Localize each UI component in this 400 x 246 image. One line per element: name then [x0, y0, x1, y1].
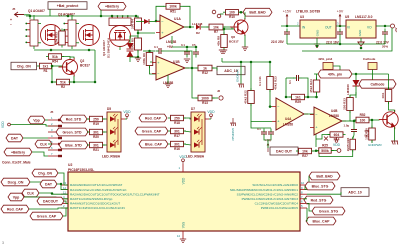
svg-text:1k1: 1k1 — [295, 95, 301, 99]
wire pin9 — [305, 186, 307, 190]
wire R6 top — [149, 51, 151, 53]
wire base divider — [52, 66, 56, 82]
wire node to R31 col — [356, 73, 389, 75]
no-connect X — [324, 137, 328, 141]
svg-text:SDL/SDA/PWM4/NCO1/C2IN1-/C1IN1: SDL/SDA/PWM4/NCO1/C2IN1-/C1IN1-/AN5/RC1 — [230, 188, 298, 192]
svg-text:PWM2/CLCIN0/C2IN3-/C1IN3-/AN7/: PWM2/CLCIN0/C2IN3-/C1IN3-/AN7/RC3 — [242, 197, 299, 201]
wire R29 right — [304, 96, 317, 98]
svg-text:+: + — [10, 18, 12, 22]
wire R25 right — [331, 150, 337, 152]
svg-text:0.1: 0.1 — [181, 43, 185, 47]
svg-text:1k: 1k — [203, 66, 207, 70]
resistor R25 — [316, 144, 334, 154]
wire feedback top — [286, 77, 294, 79]
test point J6 — [219, 96, 223, 100]
svg-text:U1B: U1B — [173, 60, 180, 64]
wire C2 down — [339, 38, 341, 45]
global label 49%_pin — [318, 70, 352, 78]
svg-text:49%_pin3: 49%_pin3 — [318, 57, 333, 61]
svg-text:DAT: DAT — [11, 136, 19, 140]
junction — [135, 15, 138, 18]
label Dscg_ON — [1, 178, 30, 186]
svg-text:Cathode: Cathode — [371, 82, 385, 86]
transistor Q8 BC817 — [379, 110, 398, 129]
svg-text:Q4 AO4407: Q4 AO4407 — [102, 40, 106, 56]
junction — [67, 15, 70, 18]
wire R4 to R5 — [137, 30, 139, 38]
svg-text:R54: R54 — [52, 59, 58, 63]
wire R24 top — [316, 74, 318, 80]
wire +Battery down — [100, 10, 102, 16]
wire R5 to gnd — [137, 50, 139, 57]
svg-text:−: − — [10, 23, 12, 27]
svg-text:Dscg_ON: Dscg_ON — [8, 180, 24, 184]
wire divider to op-amp + — [138, 32, 155, 34]
svg-text:Batt_BAD: Batt_BAD — [249, 11, 266, 15]
wire pin7 — [304, 199, 307, 200]
wire R31 to Q8 collector — [389, 102, 395, 110]
wire J7 down — [372, 70, 374, 81]
wire R23 to - input — [270, 90, 272, 107]
junction — [223, 28, 226, 31]
svg-text:R17: R17 — [174, 134, 180, 138]
label DAT U2 — [40, 180, 57, 188]
junction — [186, 46, 189, 49]
svg-text:45k3 R24: 45k3 R24 — [309, 79, 313, 93]
op-amp U4A LM358 — [272, 98, 308, 130]
svg-text:Vpp: Vpp — [13, 195, 20, 199]
connector J1 charger input arrow — [15, 12, 25, 17]
wire to R23 — [269, 62, 271, 76]
global label Blue_CAP right — [306, 217, 336, 225]
svg-text:Red_CAP: Red_CAP — [145, 116, 162, 120]
svg-text:10: 10 — [301, 181, 305, 185]
svg-text:Blue_STD: Blue_STD — [65, 143, 82, 147]
resistor R12 — [196, 65, 215, 75]
wire U1B + in — [150, 61, 152, 63]
svg-text:Q6: Q6 — [231, 35, 235, 39]
wire Chg_ON to pin13 — [58, 173, 68, 185]
svg-text:CLK: CLK — [40, 142, 48, 146]
svg-text:Vpp: Vpp — [33, 118, 40, 122]
resistor R18 — [168, 115, 186, 125]
svg-text:VDD: VDD — [1, 121, 5, 128]
wire LM4040 to R33 — [350, 92, 356, 98]
svg-text:3: 3 — [2, 241, 4, 245]
wire collector node — [389, 88, 391, 90]
wire LM4040 down — [355, 86, 357, 98]
svg-text:Green_CAP: Green_CAP — [142, 129, 162, 133]
ground R8 — [221, 50, 227, 54]
svg-text:100k R5: 100k R5 — [130, 38, 134, 50]
wire collector — [394, 110, 396, 112]
capacitor C9 0.1 — [268, 129, 274, 138]
IC U2 PIC16F1503 — [68, 163, 300, 231]
capacitor C8 1.0u — [351, 126, 357, 135]
wire bottom rail — [34, 49, 95, 51]
svg-text:Red_CAP: Red_CAP — [7, 207, 24, 211]
junction — [250, 61, 253, 64]
svg-text:LM358: LM358 — [283, 123, 293, 127]
resistor R54 — [46, 54, 64, 64]
svg-text:GNDPwR: GNDPwR — [236, 69, 240, 82]
resistor R20 — [87, 129, 105, 139]
svg-text:301: 301 — [174, 129, 180, 133]
resistor R13 — [196, 95, 215, 105]
wire CLK pin5 — [48, 143, 52, 145]
wire pin6 — [307, 203, 312, 211]
capacitor C6 0.1 — [261, 129, 267, 138]
wire R10 to Batt_BAD — [239, 11, 249, 13]
wire out down to R13 — [192, 68, 197, 98]
connector J2 Conn_01x07_Male — [48, 116, 62, 157]
svg-text:20%: 20% — [382, 45, 388, 49]
resistor R52 — [354, 113, 372, 123]
svg-text:R16: R16 — [174, 147, 180, 151]
global label Green_CAP — [135, 127, 168, 135]
resistor R5 — [130, 36, 141, 53]
label +Battery J2 — [4, 148, 32, 156]
resistor R23 — [267, 74, 278, 92]
wire feedback left — [285, 78, 287, 97]
resistor R30 — [365, 126, 376, 143]
svg-text:+15V: +15V — [283, 10, 292, 14]
wire D1 bottom — [130, 56, 138, 58]
wire Vpp to pin1 — [45, 119, 48, 121]
label +Bat_protect — [48, 2, 87, 10]
junction — [137, 32, 140, 35]
svg-text:J5: J5 — [12, 7, 16, 11]
label Green_CAP U2 — [30, 212, 63, 220]
label Chg_ON — [11, 62, 37, 70]
junction — [315, 113, 318, 116]
svg-text:100k: 100k — [169, 5, 177, 9]
power VDD D7 — [207, 110, 215, 119]
junction — [316, 45, 319, 48]
svg-text:GNDPWR: GNDPWR — [368, 143, 382, 147]
small diode D3 — [144, 19, 149, 24]
capacitor C7 0.1 — [156, 48, 165, 54]
wire top rail +Battery — [26, 15, 136, 17]
svg-text:LM358: LM358 — [329, 114, 339, 118]
svg-text:LED_RGBA: LED_RGBA — [186, 155, 205, 159]
svg-text:SCK/SCL/CLC2/C2IN+/AN4/RC0: SCK/SCL/CLC2/C2IN+/AN4/RC0 — [252, 183, 298, 187]
global label Blue_CAP — [139, 140, 168, 148]
svg-text:45k3 R22: 45k3 R22 — [244, 90, 248, 104]
svg-text:Green_STD: Green_STD — [62, 130, 82, 134]
wire Green_CAP — [63, 208, 68, 216]
svg-text:100: 100 — [360, 118, 366, 122]
w — [125, 118, 127, 120]
svg-text:+Battery: +Battery — [105, 5, 119, 9]
svg-text:51k: 51k — [60, 80, 66, 84]
junction — [73, 81, 76, 84]
label ADC_10 mid — [217, 66, 245, 74]
label CLK U2 — [22, 189, 39, 197]
junction — [189, 26, 192, 29]
capacitor C3 22.0 10V — [382, 29, 388, 38]
svg-text:0.1 C11: 0.1 C11 — [258, 76, 262, 86]
power +9V caps — [265, 139, 272, 152]
label DACOUT — [270, 147, 298, 155]
label Chg_ON U2 — [32, 169, 58, 177]
wire U5 gnd — [360, 38, 362, 42]
junction — [240, 11, 243, 14]
svg-text:R2: R2 — [61, 85, 65, 89]
svg-text:+Battery: +Battery — [11, 150, 25, 154]
svg-text:CLK: CLK — [27, 191, 35, 195]
junction — [269, 61, 272, 64]
power VDD U2 — [179, 155, 187, 164]
wire node to LM4040 — [355, 74, 357, 80]
junction — [315, 96, 318, 99]
resistor R1 — [37, 63, 54, 73]
global label Green_STD — [56, 128, 88, 136]
svg-text:RA4/AN3/T1G/NCO1/SDO/CLKOUT: RA4/AN3/T1G/NCO1/SDO/CLKOUT — [70, 202, 120, 206]
junction — [286, 25, 289, 28]
capacitor C2 22.0 16V — [337, 29, 343, 38]
wire DACOUT pin3 — [64, 201, 68, 203]
svg-text:U4A: U4A — [285, 117, 292, 121]
svg-text:VDD: VDD — [333, 143, 341, 147]
wire down to R31 — [388, 74, 390, 89]
svg-text:0.1: 0.1 — [288, 80, 292, 84]
wire R14 left — [316, 135, 330, 140]
svg-text:12: 12 — [63, 186, 67, 190]
wire Dscg_ON — [30, 182, 45, 184]
wire R6 to inverting — [150, 66, 157, 75]
capacitor C5 0.1 — [193, 49, 199, 58]
resistor R29 — [289, 94, 307, 104]
resistor R14 — [328, 132, 346, 142]
resistor R26 — [346, 137, 356, 153]
op-amp U4B LM358 — [310, 107, 346, 135]
wire Q6 emitter — [244, 35, 246, 47]
svg-text:Blue_CAP: Blue_CAP — [313, 219, 331, 223]
wire Red_CAP pin2 — [29, 208, 68, 209]
power +15V — [283, 10, 292, 26]
wire C1 down — [286, 38, 288, 45]
transistor Q6 BC817 — [230, 18, 248, 36]
wire R12 to ADC label — [212, 68, 217, 71]
svg-text:VDD: VDD — [123, 110, 131, 114]
svg-text:301: 301 — [93, 130, 99, 134]
transistor Q3 AO4407 — [63, 15, 99, 49]
wire R24 bottom — [316, 92, 318, 97]
svg-text:10k: 10k — [302, 149, 308, 153]
label DAT J2 — [6, 134, 23, 142]
junction — [88, 49, 91, 52]
junction — [94, 81, 97, 84]
resistor R19 — [87, 116, 105, 126]
power VDD R14 — [333, 138, 341, 148]
svg-text:VDD: VDD — [207, 110, 215, 114]
global label Cathode — [359, 80, 396, 88]
ground Q6 emitter — [242, 47, 248, 51]
power VDD D5 — [123, 110, 131, 119]
diode U6 LM4040 — [353, 80, 360, 86]
svg-text:Red_STG: Red_STG — [311, 198, 327, 202]
svg-text:R27: R27 — [302, 154, 308, 158]
regulator U5 LM1117-5.0 — [346, 20, 376, 38]
op-amp U1A LM358 — [156, 15, 188, 39]
resistor R33 — [343, 95, 354, 113]
svg-text:BC817: BC817 — [80, 64, 90, 68]
junction — [269, 105, 272, 108]
wire charger to Q1 — [24, 15, 30, 19]
svg-text:250 R33: 250 R33 — [343, 98, 347, 110]
wire R29 left — [286, 96, 292, 98]
svg-text:+Bat_protect: +Bat_protect — [57, 4, 79, 8]
svg-text:U5: U5 — [345, 15, 349, 19]
ground C4 — [184, 59, 190, 63]
wire R26 bottom loop — [319, 150, 353, 157]
wire U1B gnd stub — [167, 75, 169, 84]
svg-text:BC817: BC817 — [229, 40, 239, 44]
svg-text:Green_CAP: Green_CAP — [37, 214, 57, 218]
wire +5V down-left — [302, 28, 392, 51]
resistor R22 — [244, 88, 255, 106]
svg-text:Chg_ON: Chg_ON — [38, 171, 52, 175]
wire U4A out down — [304, 114, 316, 147]
global label Blue_STD — [59, 141, 88, 149]
svg-text:1.0µ: 1.0µ — [344, 124, 350, 128]
svg-text:200 R4: 200 R4 — [130, 19, 134, 29]
junction — [339, 25, 342, 28]
svg-text:R1: R1 — [43, 69, 47, 73]
svg-text:DAT: DAT — [45, 182, 53, 186]
junction — [355, 73, 358, 76]
label Vpp J2 — [28, 116, 45, 124]
svg-text:R18: R18 — [174, 121, 180, 125]
svg-text:LED_RGBA: LED_RGBA — [102, 155, 121, 159]
junction — [148, 50, 151, 53]
svg-text:R52: R52 — [360, 113, 366, 117]
transistor Q1 AO4407 — [25, 15, 61, 49]
svg-text:R29: R29 — [295, 100, 301, 104]
junction — [371, 119, 374, 122]
wire Vpp to pin4 — [24, 197, 68, 199]
wire DAT to pin4 — [23, 137, 48, 139]
wire tp to R10 — [220, 13, 224, 15]
svg-text:OUT: OUT — [325, 26, 332, 30]
diode D2 LL4148 — [196, 24, 200, 29]
svg-text:D2: D2 — [196, 31, 200, 35]
junction — [137, 56, 140, 59]
w — [209, 118, 211, 120]
svg-text:VO: VO — [367, 26, 372, 30]
power GNDPWR flag left — [230, 118, 236, 126]
ground C5 right — [219, 50, 225, 54]
wire base to R30 — [371, 120, 373, 128]
resistor R27 — [296, 148, 314, 158]
svg-text:C5: C5 — [192, 43, 196, 47]
wire R2 to rail — [69, 81, 96, 83]
svg-text:D5: D5 — [107, 107, 111, 111]
svg-text:R19: R19 — [93, 122, 99, 126]
svg-text:301: 301 — [93, 143, 99, 147]
global label Green_STG right — [312, 207, 345, 215]
svg-text:Conn_01x07_Male: Conn_01x07_Male — [2, 161, 31, 165]
transistor Q2 BC817 — [59, 58, 78, 77]
wire C7 to output feedback — [165, 51, 193, 68]
wire U1B out — [185, 67, 197, 69]
wire rail x251 upper — [250, 62, 252, 90]
svg-text:Blue_CAP: Blue_CAP — [145, 142, 163, 146]
wire +Bat_protect down — [49, 9, 51, 16]
resistor R2 — [54, 79, 72, 89]
label Blue_STG U2 — [305, 182, 335, 190]
svg-text:51k: 51k — [52, 55, 58, 59]
wire U3 out — [336, 25, 346, 27]
w — [184, 118, 192, 119]
wire gnd rail regulators — [287, 43, 385, 45]
wire R54 to Q2 collector — [62, 57, 70, 60]
w — [87, 118, 89, 120]
ground VSS U2 — [180, 239, 186, 243]
svg-text:22.0 25V: 22.0 25V — [271, 40, 285, 44]
junction — [100, 15, 103, 18]
resistor R6 — [142, 50, 153, 68]
ground U3 — [314, 44, 320, 48]
w — [103, 118, 108, 120]
resistor R24 — [309, 78, 320, 95]
wire caps bottom — [264, 138, 271, 141]
wire U5 out — [376, 25, 390, 27]
wire R30 bottom — [371, 141, 373, 144]
svg-text:49%_pin: 49%_pin — [328, 72, 342, 76]
capacitor C4 0.1 — [184, 49, 190, 58]
wire R1 to Q2 base — [51, 65, 63, 67]
svg-text:ADC_10: ADC_10 — [348, 190, 361, 194]
resistor R21 — [87, 142, 105, 152]
power +9V — [337, 10, 344, 26]
resistor R8 — [217, 32, 228, 50]
svg-text:R20: R20 — [93, 135, 99, 139]
wire R13 to tp — [212, 97, 218, 99]
svg-text:RA1/AN1/Vref+/C1IN0-/C2IN0-/IC: RA1/AN1/Vref+/C1IN0-/C2IN0-/ICSPCLK — [70, 188, 127, 192]
w — [184, 144, 192, 145]
LED D7 LED_RGBA — [191, 112, 209, 152]
svg-text:Batt_BAD: Batt_BAD — [316, 174, 333, 178]
ground U1B — [165, 84, 171, 88]
diode D1 SM4124CA TVS — [127, 38, 134, 62]
svg-text:10k R53: 10k R53 — [55, 32, 59, 44]
svg-text:10k R30: 10k R30 — [365, 128, 369, 140]
svg-text:Cathode: Cathode — [363, 57, 376, 61]
test point J3 dual circles — [212, 10, 221, 18]
w — [103, 131, 108, 133]
svg-text:+9V: +9V — [337, 10, 344, 14]
wire base in wait — [224, 28, 234, 30]
svg-text:250: 250 — [93, 117, 99, 121]
svg-text:DACOUT: DACOUT — [43, 199, 59, 203]
svg-text:R25: R25 — [322, 144, 328, 148]
svg-text:PIC16F1503-I/SL: PIC16F1503-I/SL — [68, 168, 94, 172]
svg-text:VSS: VSS — [182, 222, 186, 228]
wire C8 up — [353, 121, 355, 126]
label CLK J2 — [35, 140, 52, 148]
svg-text:GND: GND — [358, 30, 362, 36]
svg-text:45k R8: 45k R8 — [217, 36, 221, 46]
svg-text:604: 604 — [334, 133, 340, 137]
svg-text:45k3 R23: 45k3 R23 — [274, 76, 278, 90]
wire base to R8 — [223, 29, 225, 35]
wire jumper to node — [333, 66, 340, 74]
wire U1A output — [184, 26, 194, 28]
ground GNDPWR U5 — [358, 42, 364, 46]
label Vpp U2 — [8, 193, 24, 201]
